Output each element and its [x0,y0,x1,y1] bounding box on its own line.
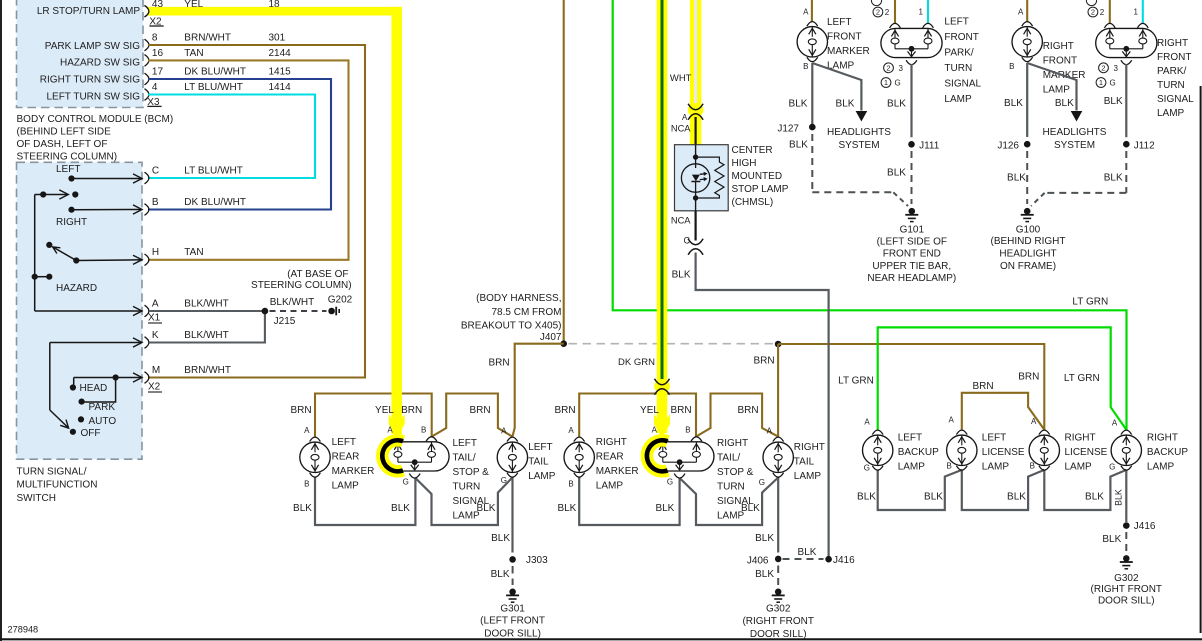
svg-text:BLK: BLK [755,569,774,580]
svg-text:A: A [304,426,310,435]
svg-text:G: G [1110,79,1116,88]
svg-text:DOOR SILL): DOOR SILL) [484,629,541,640]
svg-text:TAIL: TAIL [794,456,815,467]
svg-text:A: A [652,426,658,435]
svg-text:TAIL: TAIL [528,456,549,467]
svg-text:78.5 CM FROM: 78.5 CM FROM [491,307,561,318]
svg-text:PARK/: PARK/ [1157,66,1186,77]
svg-text:B: B [685,426,690,435]
svg-text:G301: G301 [500,604,525,615]
svg-text:1: 1 [1134,8,1139,17]
svg-text:TAN: TAN [184,247,203,258]
svg-text:B: B [1009,62,1014,71]
svg-text:LAMP: LAMP [1065,461,1093,472]
svg-text:A: A [682,113,688,122]
svg-text:BODY CONTROL MODULE (BCM): BODY CONTROL MODULE (BCM) [17,114,174,125]
svg-text:BRN: BRN [488,358,509,369]
svg-text:(LEFT SIDE OF: (LEFT SIDE OF [877,236,947,247]
svg-text:MOUNTED: MOUNTED [732,171,783,182]
svg-text:(RIGHT FRONT: (RIGHT FRONT [742,616,813,627]
svg-text:BRN: BRN [737,405,758,416]
svg-text:BLK: BLK [836,99,855,110]
svg-text:LEFT: LEFT [453,438,477,449]
svg-text:LEFT: LEFT [898,432,922,443]
svg-text:LAMP: LAMP [944,94,972,105]
svg-text:B: B [1030,461,1035,470]
svg-text:BLK: BLK [491,533,510,544]
svg-text:A: A [1018,8,1024,17]
svg-text:1415: 1415 [269,67,292,78]
svg-text:3: 3 [899,64,904,73]
svg-text:BRN: BRN [401,405,422,416]
svg-text:RIGHT: RIGHT [1157,38,1188,49]
svg-text:BLK: BLK [1007,492,1026,503]
svg-text:BLK: BLK [755,533,774,544]
svg-text:NCA: NCA [671,124,691,134]
svg-text:YEL: YEL [640,405,659,416]
svg-text:TAN: TAN [184,48,203,59]
svg-text:LEFT: LEFT [528,442,552,453]
svg-text:G202: G202 [328,295,353,306]
svg-text:G: G [864,464,870,473]
svg-text:BRN: BRN [972,381,993,392]
svg-text:FRONT: FRONT [944,32,978,43]
svg-text:TURN SIGNAL/: TURN SIGNAL/ [17,466,87,477]
svg-text:A: A [152,298,159,309]
svg-text:M: M [152,365,160,376]
svg-text:DK BLU/WHT: DK BLU/WHT [184,197,246,208]
svg-text:C: C [152,165,159,176]
svg-text:J126: J126 [997,140,1019,151]
svg-text:CENTER: CENTER [732,145,773,156]
svg-text:301: 301 [269,33,286,44]
svg-text:FRONT: FRONT [1043,56,1077,67]
svg-text:BRN/WHT: BRN/WHT [184,33,231,44]
svg-text:J407: J407 [540,332,562,343]
svg-text:LT GRN: LT GRN [1064,373,1100,384]
svg-text:STOP &: STOP & [717,467,754,478]
svg-text:4: 4 [152,82,158,93]
svg-text:SWITCH: SWITCH [17,493,56,504]
svg-text:BLK: BLK [1102,534,1121,545]
svg-text:LAMP: LAMP [1157,108,1185,119]
svg-text:FRONT END: FRONT END [883,249,941,260]
svg-text:BLK: BLK [887,99,906,110]
svg-text:BLK/WHT: BLK/WHT [184,330,228,341]
svg-text:HEADLIGHT: HEADLIGHT [999,249,1056,260]
svg-text:(BEHIND RIGHT: (BEHIND RIGHT [991,236,1066,247]
svg-text:A: A [501,427,507,436]
svg-text:BACKUP: BACKUP [1147,447,1188,458]
svg-text:2: 2 [1100,8,1105,17]
svg-text:REAR: REAR [332,451,360,462]
svg-text:2: 2 [886,64,890,73]
svg-text:OFF: OFF [81,428,101,439]
svg-text:A: A [1112,419,1118,428]
svg-text:LAMP: LAMP [982,461,1010,472]
svg-text:LEFT: LEFT [827,17,851,28]
svg-text:278948: 278948 [8,625,39,635]
svg-text:HIGH: HIGH [732,158,757,169]
svg-text:A: A [387,426,393,435]
svg-text:C: C [684,235,691,245]
svg-text:X2: X2 [148,382,161,393]
svg-text:G302: G302 [766,604,791,615]
svg-text:PARK/: PARK/ [944,48,973,59]
svg-text:SYSTEM: SYSTEM [1054,140,1095,151]
svg-text:A: A [568,426,574,435]
svg-text:BLK: BLK [798,547,817,558]
svg-text:HEADLIGHTS: HEADLIGHTS [1043,127,1107,138]
svg-text:G: G [403,478,409,487]
svg-text:BLK: BLK [1004,98,1023,109]
svg-text:RIGHT: RIGHT [717,438,748,449]
svg-text:BLK: BLK [672,270,691,281]
svg-text:B: B [803,62,808,71]
svg-text:B: B [304,480,309,489]
svg-text:DK BLU/WHT: DK BLU/WHT [184,67,246,78]
svg-text:YEL: YEL [375,405,394,416]
svg-text:B: B [152,197,159,208]
svg-text:BLK: BLK [887,168,906,179]
svg-text:LAMP: LAMP [453,510,481,521]
svg-text:BLK: BLK [391,503,410,514]
svg-text:RIGHT TURN SW SIG: RIGHT TURN SW SIG [40,75,140,86]
svg-text:J416: J416 [833,555,855,566]
svg-text:BLK: BLK [924,492,943,503]
svg-text:A: A [803,8,809,17]
svg-text:TURN: TURN [944,63,972,74]
svg-text:MARKER: MARKER [596,466,639,477]
svg-text:LT GRN: LT GRN [838,375,874,386]
svg-text:BLK: BLK [1104,173,1123,184]
svg-text:TURN: TURN [453,481,481,492]
svg-text:ON FRAME): ON FRAME) [1000,261,1056,272]
svg-text:K: K [152,330,159,341]
svg-text:A: A [948,416,954,425]
svg-text:BRN: BRN [1018,372,1039,383]
svg-text:(LEFT FRONT: (LEFT FRONT [480,616,545,627]
svg-text:A: A [1031,417,1037,426]
svg-text:WHT: WHT [670,73,692,84]
svg-text:STOP LAMP: STOP LAMP [732,184,789,195]
svg-text:LICENSE: LICENSE [1065,447,1108,458]
svg-text:MARKER: MARKER [332,466,375,477]
svg-text:G: G [1109,462,1115,471]
svg-text:DK GRN: DK GRN [618,357,655,368]
svg-text:16: 16 [152,48,164,59]
svg-text:HAZARD SW SIG: HAZARD SW SIG [60,58,140,69]
svg-text:TURN: TURN [717,481,745,492]
svg-text:HEAD: HEAD [80,383,108,394]
svg-text:J303: J303 [526,555,548,566]
svg-text:LAMP: LAMP [1043,84,1071,95]
svg-text:A: A [864,418,870,427]
svg-text:8: 8 [152,33,158,44]
svg-text:RIGHT: RIGHT [1147,432,1178,443]
svg-text:2: 2 [1091,8,1095,17]
svg-text:SIGNAL: SIGNAL [453,496,490,507]
svg-text:B: B [946,461,951,470]
svg-text:PARK LAMP SW SIG: PARK LAMP SW SIG [45,41,140,52]
svg-text:HAZARD: HAZARD [56,283,97,294]
svg-text:17: 17 [152,67,164,78]
svg-text:B: B [568,480,573,489]
svg-text:STEERING COLUMN): STEERING COLUMN) [17,152,118,163]
svg-text:STEERING COLUMN): STEERING COLUMN) [251,280,352,291]
svg-text:AUTO: AUTO [89,416,117,427]
svg-text:LEFT: LEFT [56,164,80,175]
svg-text:BLK: BLK [1104,96,1123,107]
svg-text:LEFT: LEFT [332,437,356,448]
svg-text:G: G [667,478,673,487]
svg-text:BRN: BRN [753,356,774,367]
svg-text:UPPER TIE BAR,: UPPER TIE BAR, [872,261,951,272]
svg-text:X1: X1 [148,313,161,324]
svg-text:J111: J111 [919,140,940,151]
svg-text:BREAKOUT TO X405): BREAKOUT TO X405) [461,320,562,331]
svg-text:LT BLU/WHT: LT BLU/WHT [184,82,243,93]
svg-text:LR STOP/TURN LAMP: LR STOP/TURN LAMP [37,6,140,17]
svg-text:LAMP: LAMP [717,510,745,521]
svg-text:BLK: BLK [655,503,674,514]
svg-text:J127: J127 [777,124,799,135]
svg-text:RIGHT: RIGHT [596,437,627,448]
svg-text:RIGHT: RIGHT [1043,41,1074,52]
svg-text:(CHMSL): (CHMSL) [732,197,774,208]
svg-text:1: 1 [1099,78,1103,87]
svg-text:LEFT: LEFT [982,432,1006,443]
svg-text:J406: J406 [747,555,769,566]
svg-text:RIGHT: RIGHT [1065,432,1096,443]
svg-text:MULTIFUNCTION: MULTIFUNCTION [17,480,98,491]
svg-text:BRN: BRN [469,405,490,416]
svg-text:DOOR SILL): DOOR SILL) [750,629,807,640]
svg-text:(RIGHT FRONT: (RIGHT FRONT [1091,584,1162,595]
svg-text:TAIL/: TAIL/ [717,452,740,463]
svg-text:RIGHT: RIGHT [56,217,87,228]
svg-text:2: 2 [1101,64,1105,73]
svg-text:SIGNAL: SIGNAL [944,79,981,90]
svg-text:LAMP: LAMP [1147,461,1175,472]
svg-text:PARK: PARK [89,402,116,413]
svg-text:1414: 1414 [269,82,292,93]
svg-text:G100: G100 [1016,224,1041,235]
svg-text:B: B [421,426,426,435]
svg-text:LEFT: LEFT [944,17,968,28]
svg-text:SIGNAL: SIGNAL [1157,94,1194,105]
svg-text:MARKER: MARKER [827,46,870,57]
svg-text:SIGNAL: SIGNAL [717,496,754,507]
svg-text:LT BLU/WHT: LT BLU/WHT [184,165,243,176]
svg-text:TAIL/: TAIL/ [453,452,476,463]
svg-text:G: G [501,476,507,485]
svg-text:G101: G101 [900,224,925,235]
svg-text:H: H [152,247,159,258]
svg-text:2144: 2144 [269,48,292,59]
svg-text:BRN/WHT: BRN/WHT [184,365,231,376]
svg-text:LAMP: LAMP [898,461,926,472]
svg-text:BLK: BLK [1055,98,1074,109]
svg-text:REAR: REAR [596,451,624,462]
svg-text:BLK: BLK [293,503,312,514]
svg-text:FRONT: FRONT [1157,52,1191,63]
svg-text:(BODY HARNESS,: (BODY HARNESS, [476,293,561,304]
svg-text:BLK: BLK [1085,492,1104,503]
svg-text:STOP &: STOP & [453,467,490,478]
svg-text:BLK: BLK [789,139,808,150]
svg-text:BLK: BLK [789,99,808,110]
svg-text:BLK/WHT: BLK/WHT [270,297,314,308]
svg-text:LEFT TURN SW SIG: LEFT TURN SW SIG [46,92,140,103]
svg-text:2: 2 [885,8,890,17]
svg-text:1: 1 [919,8,924,17]
svg-text:1: 1 [884,78,888,87]
svg-text:BLK: BLK [1007,173,1026,184]
svg-text:G302: G302 [1114,573,1139,584]
svg-text:BLK/WHT: BLK/WHT [184,298,228,309]
svg-text:LICENSE: LICENSE [982,447,1025,458]
svg-text:NCA: NCA [671,216,691,226]
svg-text:J215: J215 [274,316,296,327]
svg-text:J112: J112 [1134,140,1155,151]
svg-text:(AT BASE OF: (AT BASE OF [287,269,348,280]
svg-text:NEAR HEADLAMP): NEAR HEADLAMP) [867,273,956,284]
svg-text:G: G [759,478,765,487]
svg-text:BRN: BRN [290,405,311,416]
svg-text:LAMP: LAMP [332,480,360,491]
svg-text:FRONT: FRONT [827,32,861,43]
svg-text:BLK: BLK [857,492,876,503]
svg-text:G: G [895,79,901,88]
svg-text:BLK: BLK [1114,489,1124,506]
svg-text:BLK: BLK [557,503,576,514]
svg-text:SYSTEM: SYSTEM [838,140,879,151]
svg-text:LAMP: LAMP [794,471,822,482]
svg-text:BACKUP: BACKUP [898,447,939,458]
svg-text:HEADLIGHTS: HEADLIGHTS [827,127,891,138]
svg-text:TURN: TURN [1157,80,1185,91]
svg-text:J416: J416 [1134,521,1156,532]
svg-text:BRN: BRN [670,405,691,416]
svg-text:LT GRN: LT GRN [1072,297,1108,308]
svg-text:2: 2 [876,8,880,17]
svg-text:LAMP: LAMP [596,480,624,491]
svg-text:LAMP: LAMP [528,471,556,482]
svg-text:RIGHT: RIGHT [794,442,825,453]
svg-text:OF DASH, LEFT OF: OF DASH, LEFT OF [17,139,108,150]
svg-text:(BEHIND LEFT SIDE: (BEHIND LEFT SIDE [17,127,112,138]
svg-text:DOOR SILL): DOOR SILL) [1098,595,1155,606]
svg-text:BLK: BLK [491,569,510,580]
svg-text:A: A [767,427,773,436]
svg-text:3: 3 [1114,64,1119,73]
svg-text:BRN: BRN [554,405,575,416]
